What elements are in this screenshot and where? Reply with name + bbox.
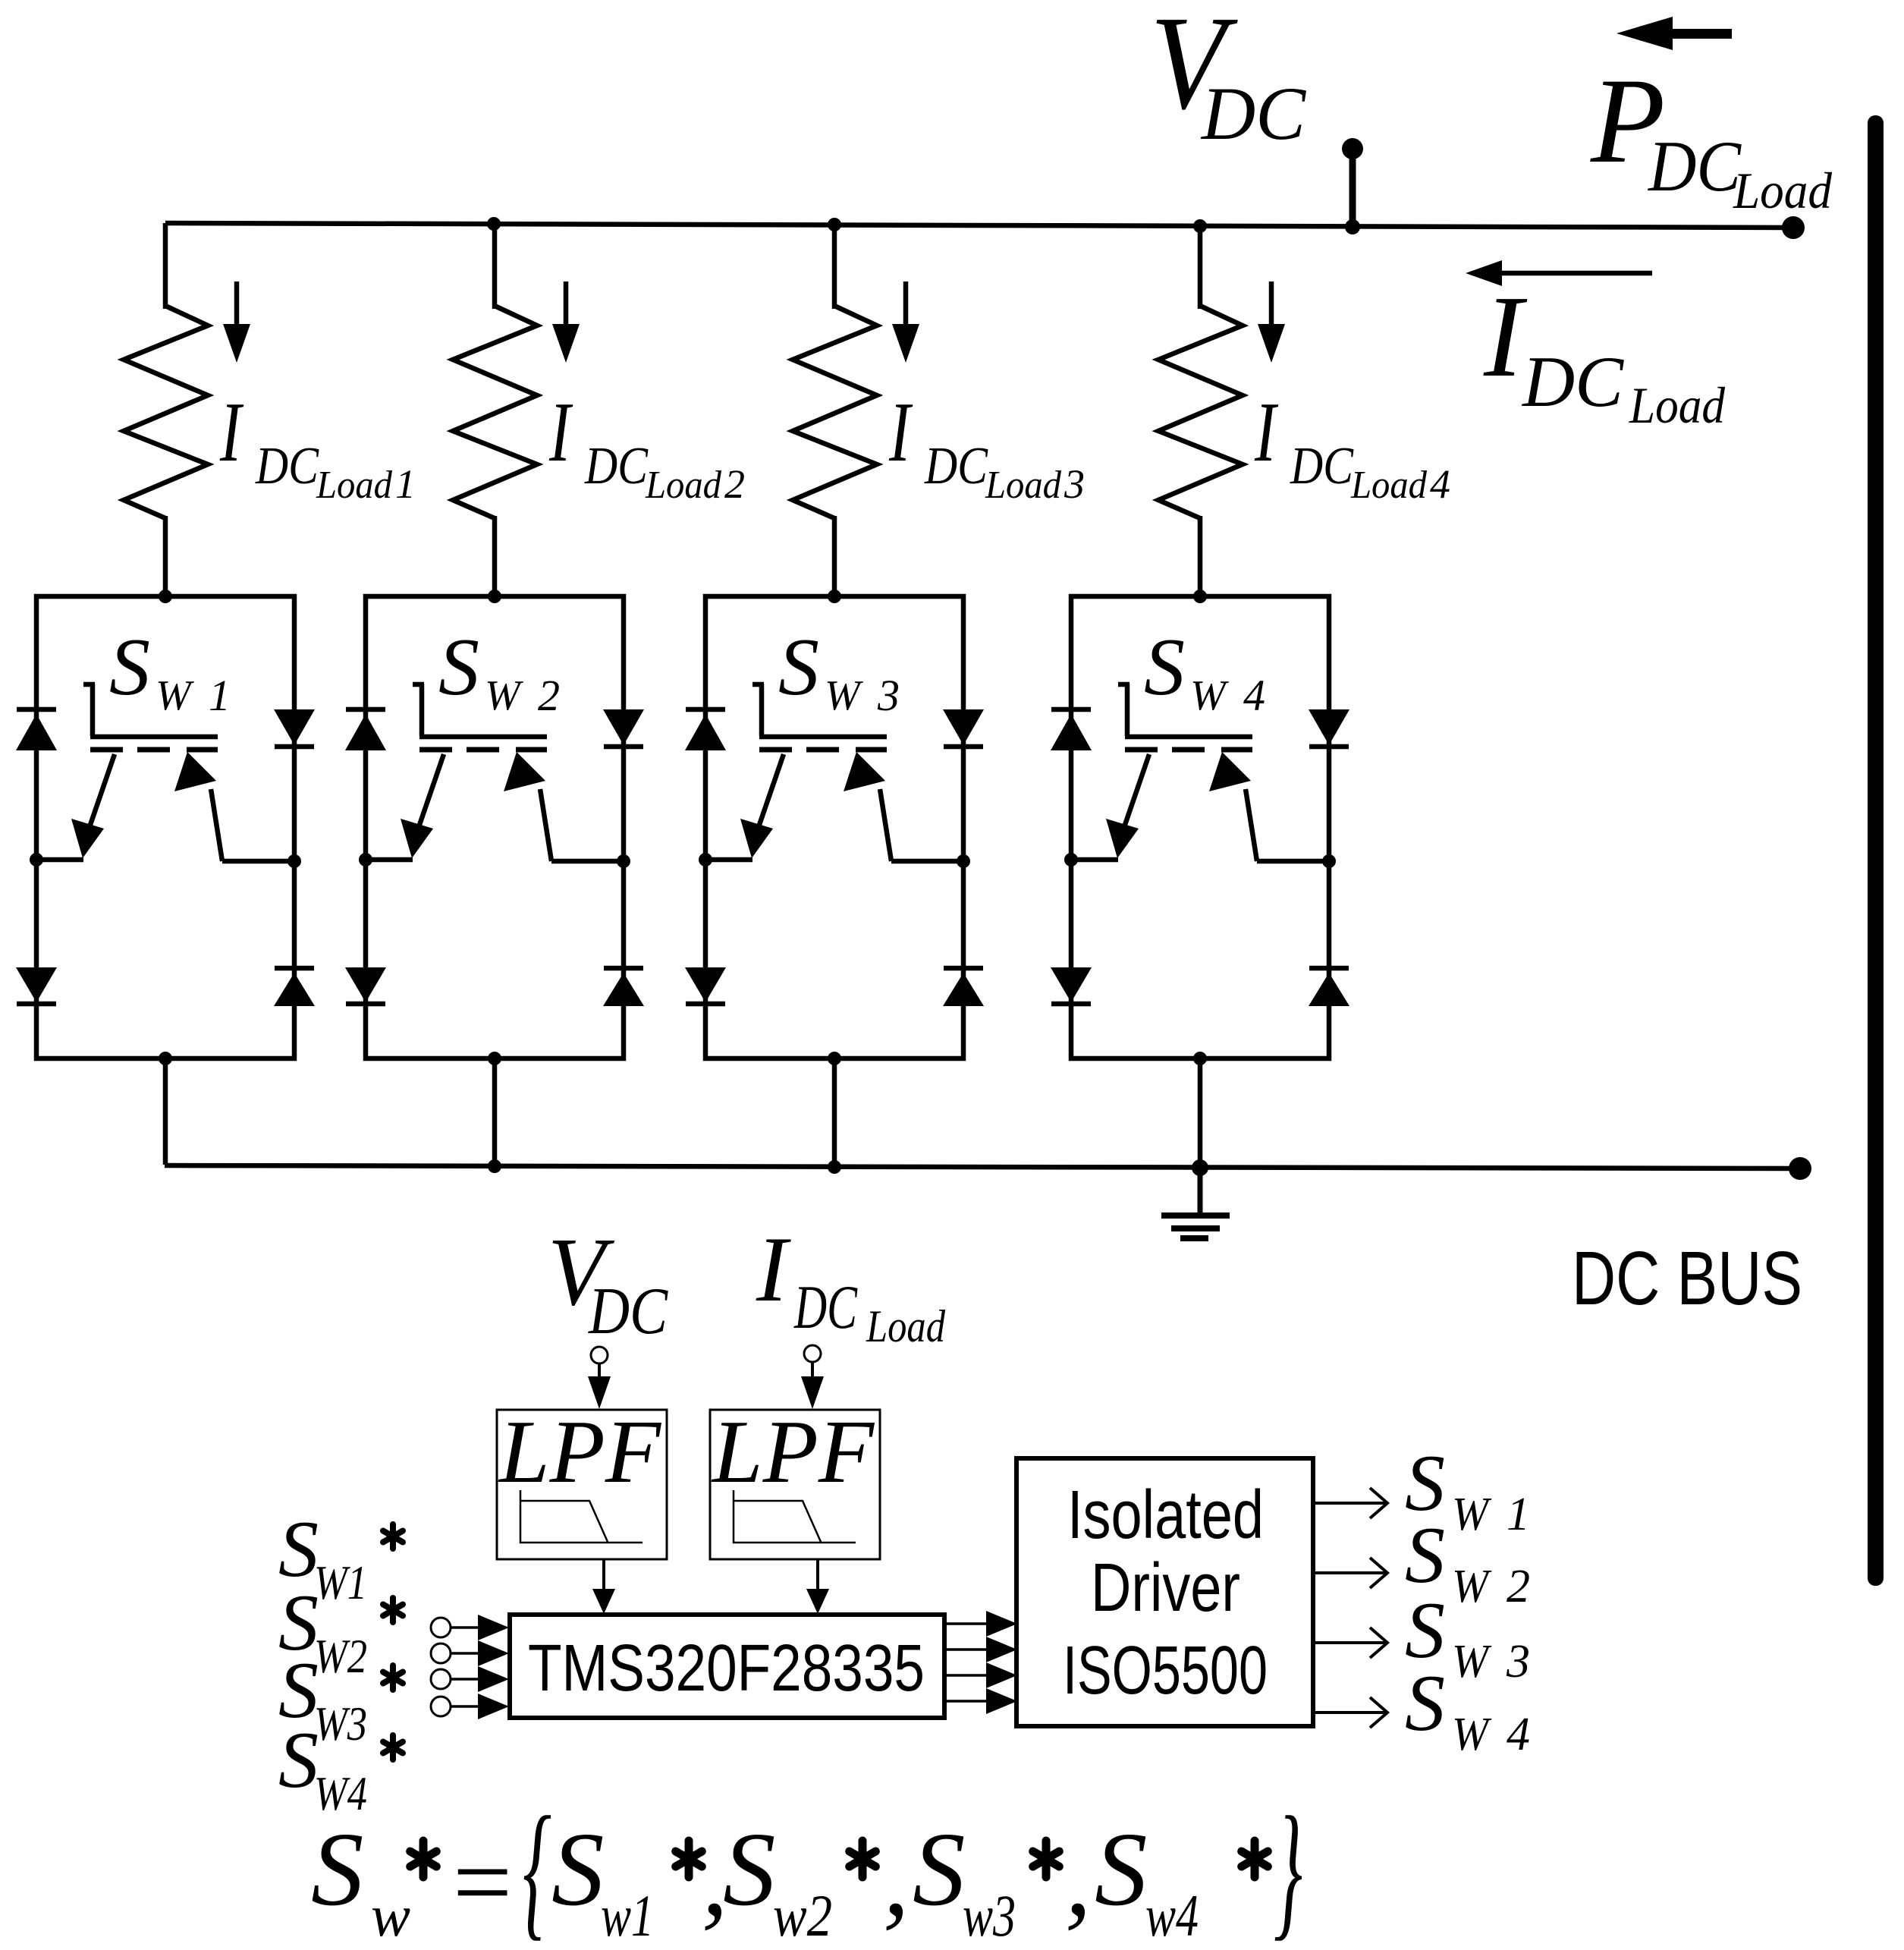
junction dot bridge 1 bottom xyxy=(159,1052,172,1065)
svg-text:2: 2 xyxy=(1507,1561,1530,1612)
svg-text:4: 4 xyxy=(1243,671,1265,720)
node bridge 3 mid-left xyxy=(699,853,712,866)
junction dot bridge 4 bottom xyxy=(1193,1052,1207,1065)
LPF block 1 xyxy=(497,1410,667,1559)
node dot branch 2 top xyxy=(487,217,501,231)
wire top DC bus xyxy=(165,223,1793,228)
node dot top bus right end xyxy=(1782,216,1805,239)
svg-text:W: W xyxy=(485,672,523,719)
wire DSP output 1 to driver xyxy=(944,1622,988,1625)
node bridge 2 mid-right xyxy=(617,854,630,868)
wire V_DC to LPF1 xyxy=(598,1363,601,1378)
wire driver output S_W3 xyxy=(1313,1641,1387,1644)
junction dot bridge 4 top xyxy=(1193,590,1207,603)
svg-text:Driver: Driver xyxy=(1091,1550,1240,1626)
wire S_W4* input to DSP xyxy=(451,1705,479,1708)
switch S_W1 right arrow xyxy=(211,789,222,861)
wire DSP output 4 to driver xyxy=(944,1700,988,1703)
svg-text:W: W xyxy=(1452,1561,1492,1612)
diode D1b upper-right (points down) xyxy=(274,709,315,745)
svg-text:DC: DC xyxy=(255,437,319,495)
svg-text:Load: Load xyxy=(645,464,722,507)
wire resistor R3 to bridge 3 xyxy=(832,516,837,599)
svg-text:w2: w2 xyxy=(773,1882,832,1948)
driver ISO5500 box xyxy=(1016,1458,1313,1726)
wire S_W2* input to DSP xyxy=(451,1652,479,1655)
svg-text:DC: DC xyxy=(1290,437,1354,495)
svg-text:W1: W1 xyxy=(314,1555,367,1609)
svg-text:Load: Load xyxy=(1350,464,1428,507)
svg-text:}: } xyxy=(1274,1786,1302,1950)
svg-text:S: S xyxy=(278,1716,319,1804)
switch S_W3 gate bar xyxy=(752,682,764,687)
svg-text:S: S xyxy=(438,622,479,712)
resistor R2 (load) xyxy=(453,306,537,518)
switch S_W2 gate bar xyxy=(413,682,424,687)
switch S_W4 gate bar xyxy=(1118,682,1130,687)
switch S_W4 right arrow xyxy=(1246,789,1257,861)
svg-text:1: 1 xyxy=(209,671,231,720)
svg-text:DC: DC xyxy=(584,437,649,495)
svg-text:W: W xyxy=(1452,1709,1492,1760)
current direction arrow branch 3 xyxy=(903,281,909,327)
DC BUS thick bar xyxy=(1868,115,1884,1586)
svg-text:3: 3 xyxy=(1506,1636,1530,1687)
svg-text:I: I xyxy=(1483,272,1528,401)
switch S_W3 dashed contact xyxy=(759,747,792,753)
diode D2a upper-left (points up) xyxy=(346,707,385,712)
switch S_W2 left arrow xyxy=(419,754,444,827)
diode D2c lower-left (points down) xyxy=(345,967,386,1002)
svg-text:LPF: LPF xyxy=(711,1401,875,1502)
svg-text:2: 2 xyxy=(724,461,745,507)
diode D2d lower-right (points up) xyxy=(604,966,643,971)
node dot branch 4 top xyxy=(1193,219,1207,233)
diode D3d lower-right (points up) xyxy=(944,966,983,971)
diode D4a upper-left (points up) xyxy=(1051,707,1091,712)
wire bridge 2 bottom tap xyxy=(492,1058,498,1165)
svg-text:I: I xyxy=(548,385,573,480)
diode D2b upper-right (points down) xyxy=(603,709,644,745)
svg-text:W: W xyxy=(1452,1489,1492,1540)
diode D3a upper-left (points up) xyxy=(686,707,725,712)
wire resistor R1 to bridge 1 xyxy=(163,516,168,599)
wire bridge 3 bottom tap xyxy=(832,1058,837,1166)
svg-text:w1: w1 xyxy=(601,1882,654,1948)
svg-text:S: S xyxy=(109,622,150,712)
node bridge 1 mid-left xyxy=(30,853,43,866)
current direction arrow branch 1 xyxy=(234,281,240,327)
junction dot bridge 2 top xyxy=(488,590,501,603)
node bridge 1 mid-right xyxy=(287,854,301,868)
svg-text:DC: DC xyxy=(1521,341,1625,422)
svg-text:DC BUS: DC BUS xyxy=(1572,1236,1802,1321)
svg-text:W: W xyxy=(1190,672,1229,719)
resistor R1 (load) xyxy=(124,306,208,518)
diode D3b upper-right (points down) xyxy=(943,709,984,745)
svg-text:Load: Load xyxy=(866,1301,946,1351)
wire bridge 1 bottom tap xyxy=(163,1058,168,1165)
wire branch 4 top tap xyxy=(1198,226,1203,309)
wire resistor R4 to bridge 4 xyxy=(1198,516,1203,599)
svg-text:S: S xyxy=(551,1811,605,1928)
svg-text:4: 4 xyxy=(1507,1709,1530,1760)
svg-text:W2: W2 xyxy=(314,1629,367,1683)
svg-text:Load: Load xyxy=(316,464,393,507)
svg-text:DC: DC xyxy=(924,437,988,495)
junction dot bridge 3 bottom xyxy=(828,1052,841,1065)
terminal circle S_W1* input xyxy=(431,1618,451,1637)
wire bottom DC bus xyxy=(165,1165,1800,1168)
svg-text:w3: w3 xyxy=(963,1882,1016,1948)
svg-text:1: 1 xyxy=(1507,1489,1530,1540)
node bridge 3 mid-right xyxy=(957,854,970,868)
svg-text:I: I xyxy=(1254,385,1278,480)
terminal circle S_W3* input xyxy=(431,1669,451,1689)
switch S_W4 dashed contact xyxy=(1125,747,1158,753)
switch S_W1 dashed contact xyxy=(90,747,123,753)
svg-text:1: 1 xyxy=(395,461,416,507)
ground symbol xyxy=(1198,1168,1203,1216)
svg-text:W: W xyxy=(825,672,863,719)
arrow I_DC_Load (thin, leftward) xyxy=(1500,271,1652,276)
svg-text:Load: Load xyxy=(1629,376,1726,434)
node bridge 4 mid-right xyxy=(1322,854,1336,868)
svg-text:DC: DC xyxy=(1200,71,1306,156)
node dot bottom bus right end xyxy=(1789,1157,1811,1180)
svg-text:3: 3 xyxy=(877,671,900,720)
node bridge 2 mid-left xyxy=(359,853,372,866)
svg-text:I: I xyxy=(756,1217,791,1321)
wire branch 3 top tap xyxy=(832,225,837,309)
DSP TMS320F28335 box xyxy=(510,1615,944,1718)
terminal circle S_W4* input xyxy=(431,1697,451,1716)
svg-text:I: I xyxy=(219,385,243,480)
switch S_W4 left arrow xyxy=(1124,754,1149,827)
wire branch 1 top tap xyxy=(163,223,168,309)
node dot ground junction xyxy=(1192,1159,1208,1176)
svg-text:{: { xyxy=(523,1786,551,1950)
switch S_W2 dashed contact xyxy=(419,747,452,753)
svg-text:DC: DC xyxy=(1647,126,1742,206)
arrow P_DC_Load (thick, leftward) xyxy=(1617,17,1673,50)
svg-text:W: W xyxy=(1452,1636,1492,1687)
wire driver output S_W1 xyxy=(1313,1502,1387,1505)
svg-text:W: W xyxy=(156,672,194,719)
svg-text:S: S xyxy=(723,1811,776,1928)
svg-text:LPF: LPF xyxy=(498,1401,661,1502)
node dot branch 3 top xyxy=(828,218,841,231)
diode D4d lower-right (points up) xyxy=(1309,966,1349,971)
junction dot bridge 3 top xyxy=(828,590,841,603)
svg-text:w: w xyxy=(371,1882,410,1948)
svg-text:S: S xyxy=(1144,622,1185,712)
bridge 2 box xyxy=(366,596,624,1058)
svg-text:S: S xyxy=(778,622,819,712)
LPF2 response curve xyxy=(734,1490,856,1543)
switch S_W1 gate bar xyxy=(83,682,95,687)
svg-text:S: S xyxy=(913,1811,966,1928)
switch S_W1 left arrow xyxy=(90,754,115,827)
junction dot bridge 2 bottom xyxy=(488,1052,501,1065)
diode D1a upper-left (points up) xyxy=(17,707,56,712)
switch S_W3 right arrow xyxy=(880,789,891,861)
wire I_DC_Load to LPF2 xyxy=(811,1362,814,1378)
node dot branch 2 bottom xyxy=(488,1159,501,1173)
svg-text:W3: W3 xyxy=(314,1697,367,1750)
wire resistor R2 to bridge 2 xyxy=(492,516,498,599)
node V_DC measurement stub xyxy=(1349,149,1356,228)
diode D4c lower-left (points down) xyxy=(1051,967,1092,1002)
switch S_W3 left arrow xyxy=(759,754,784,827)
current direction arrow branch 4 xyxy=(1269,281,1274,327)
bridge 3 box xyxy=(705,596,963,1058)
wire driver output S_W2 xyxy=(1313,1571,1387,1574)
svg-text:S: S xyxy=(1405,1659,1445,1747)
LPF block 2 xyxy=(710,1410,880,1559)
svg-text:Load: Load xyxy=(1733,162,1833,219)
bridge 4 box xyxy=(1071,596,1329,1058)
svg-text:,: , xyxy=(1065,1821,1092,1938)
wire DSP output 3 to driver xyxy=(944,1674,988,1677)
terminal circle V_DC xyxy=(591,1347,608,1363)
junction dot bridge 1 top xyxy=(159,590,172,603)
svg-text:4: 4 xyxy=(1430,461,1450,507)
diode D1d lower-right (points up) xyxy=(275,966,314,971)
diode D1c lower-left (points down) xyxy=(16,967,57,1002)
bridge 1 box xyxy=(36,596,294,1058)
wire LPF2 to DSP xyxy=(816,1559,819,1592)
wire DSP output 2 to driver xyxy=(944,1648,988,1651)
wire S_W1* input to DSP xyxy=(451,1626,479,1629)
terminal circle I_DC_Load xyxy=(804,1345,821,1362)
wire branch 2 top tap xyxy=(492,224,498,309)
current direction arrow branch 2 xyxy=(564,281,569,327)
svg-text:TMS320F28335: TMS320F28335 xyxy=(528,1631,925,1705)
svg-text:=: = xyxy=(446,1824,517,1941)
switch S_W2 right arrow xyxy=(540,789,551,861)
wire S_W3* input to DSP xyxy=(451,1678,479,1681)
svg-text:DC: DC xyxy=(793,1272,858,1341)
svg-text:Load: Load xyxy=(985,464,1062,507)
resistor R4 (load) xyxy=(1158,306,1243,518)
svg-text:ISO5500: ISO5500 xyxy=(1063,1633,1268,1709)
svg-text:,: , xyxy=(883,1821,910,1938)
wire driver output S_W4 xyxy=(1313,1711,1387,1714)
terminal circle S_W2* input xyxy=(431,1643,451,1663)
svg-text:DC: DC xyxy=(588,1275,668,1348)
svg-text:I: I xyxy=(888,385,913,480)
diode D4b upper-right (points down) xyxy=(1309,709,1349,745)
diode D3c lower-left (points down) xyxy=(685,967,726,1002)
wire bridge 4 bottom tap xyxy=(1198,1058,1203,1167)
svg-text:2: 2 xyxy=(538,671,560,720)
svg-text:w4: w4 xyxy=(1145,1882,1199,1948)
svg-text:3: 3 xyxy=(1064,461,1085,507)
svg-text:Isolated: Isolated xyxy=(1067,1477,1264,1553)
node bridge 4 mid-left xyxy=(1064,853,1078,866)
svg-text:S: S xyxy=(311,1811,364,1928)
svg-text:S: S xyxy=(1095,1811,1148,1928)
LPF1 response curve xyxy=(520,1490,643,1543)
wire LPF1 to DSP xyxy=(602,1559,605,1592)
resistor R3 (load) xyxy=(793,306,877,518)
node dot branch 3 bottom xyxy=(828,1160,841,1174)
